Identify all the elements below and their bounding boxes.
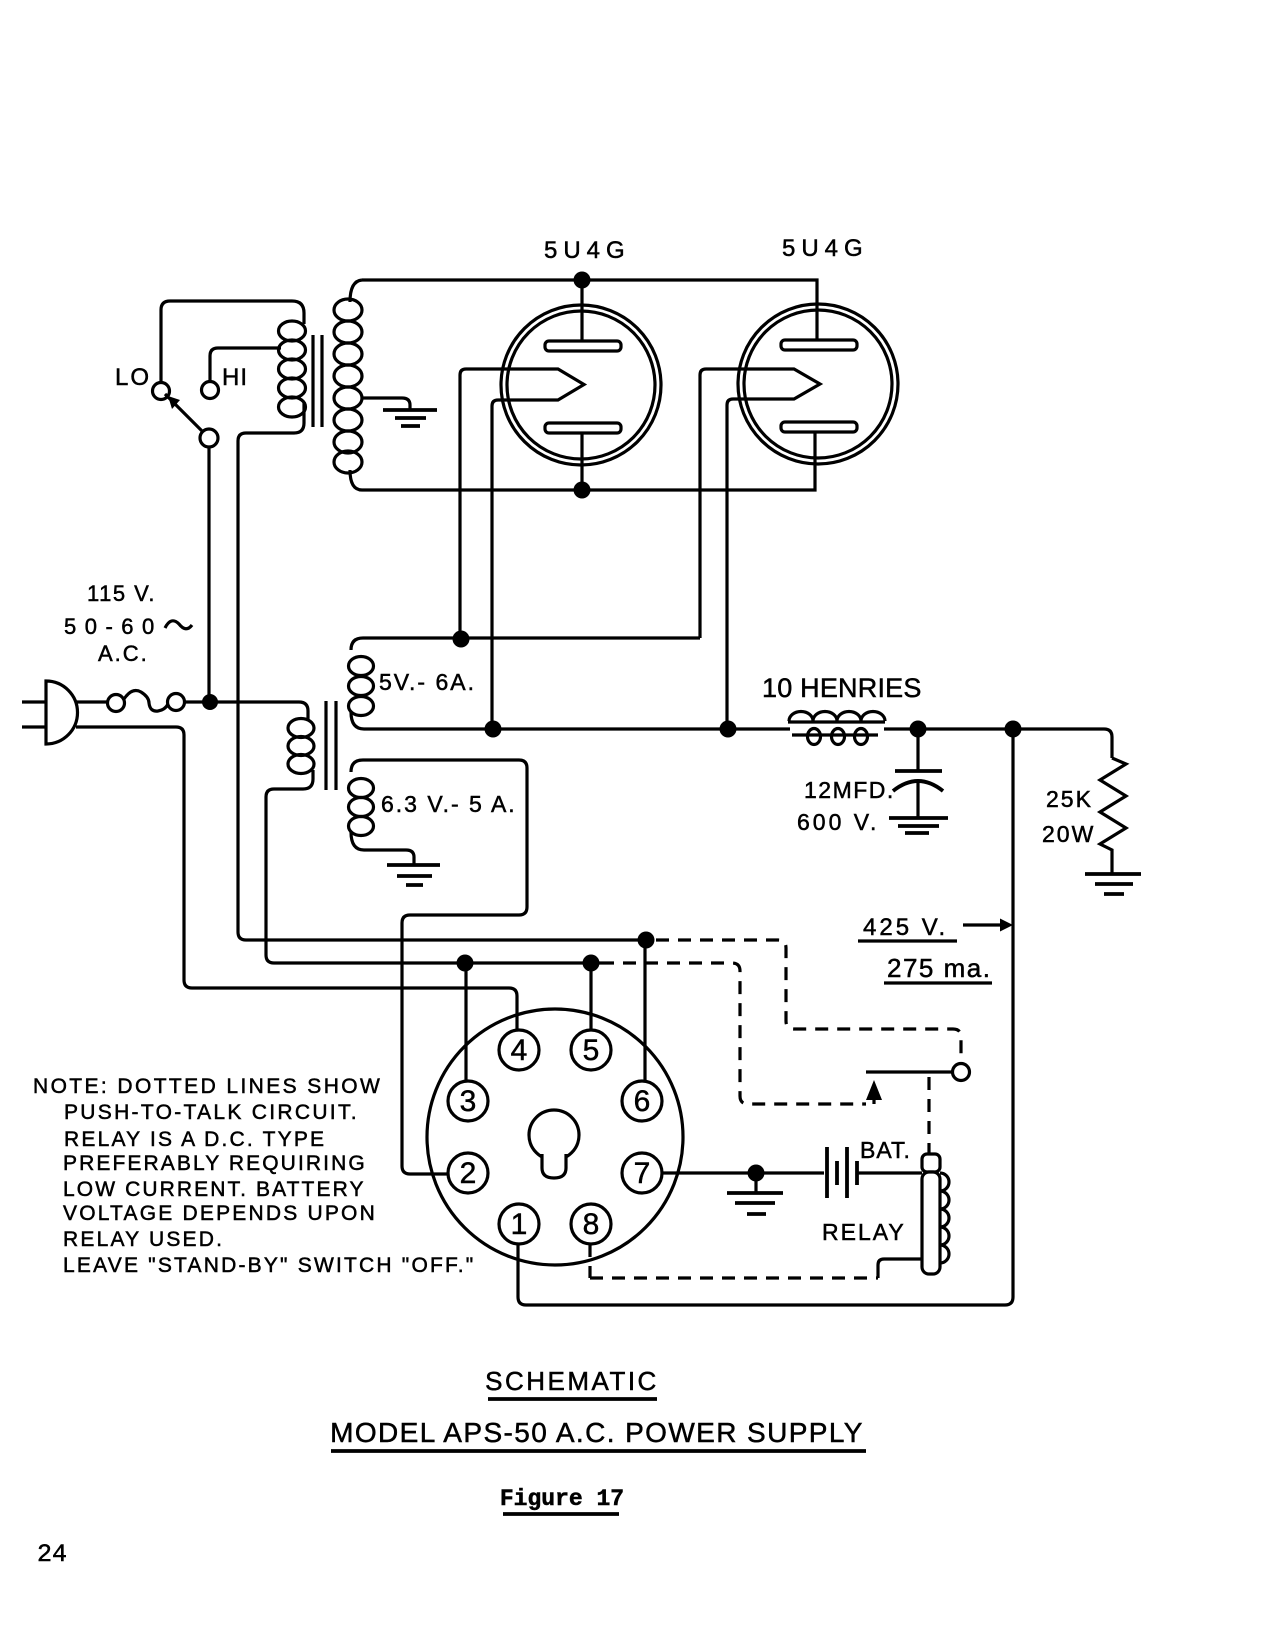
tube V2 bottom plate [781,422,857,432]
svg-text:20W: 20W [1042,821,1095,847]
label 12MFD. [804,777,895,803]
svg-text:6.3 V.- 5 A.: 6.3 V.- 5 A. [381,791,517,817]
svg-text:275 ma.: 275 ma. [887,953,991,983]
label 275 ma. with underline [887,953,991,983]
wire HV bottom line to both plates [362,433,815,490]
AC plug P1 [46,681,78,744]
svg-text:RELAY IS A D.C. TYPE: RELAY IS A D.C. TYPE [64,1128,326,1151]
svg-text:7: 7 [634,1157,651,1190]
switch S2 stand-by terminal [953,1064,970,1081]
title MODEL APS-50 A.C. POWER SUPPLY [330,1417,864,1448]
node PTT line2 / pin 3 junction [457,955,474,972]
svg-text:1: 1 [511,1208,528,1241]
node main line / capacitor junction [910,721,927,738]
svg-text:5: 5 [583,1034,600,1067]
ground (6.3V winding) [387,865,440,885]
socket pin 5 [571,1030,611,1070]
ground (resistor R1) [1085,874,1141,894]
node 5V top / V1 filament junction [453,631,470,648]
tube V2 5U4G envelope [738,304,898,464]
svg-text:10 HENRIES: 10 HENRIES [762,673,922,703]
switch S2 stand-by arm [866,1070,952,1073]
wire plug lower prong to pin 4 line [76,727,517,1031]
tube V1 plate lead top [580,280,583,341]
wire pin 5 up to PTT line 2 [589,963,592,1030]
ground (capacitor C1) [889,818,948,833]
svg-text:6: 6 [634,1085,651,1118]
wire choke to resistor corner [884,729,1112,758]
label 20W [1042,821,1095,847]
wire plug to fuse [76,700,108,703]
wire switch common down to AC line [207,447,210,702]
label 425 V. with underline [863,914,948,941]
label 6.3V.-5A. [381,791,517,817]
ground (pin 7 line) [727,1193,783,1214]
page number 24 [37,1540,67,1569]
svg-text:A.C.: A.C. [98,641,149,666]
label LO [115,364,151,391]
tube V1 bottom plate [545,423,621,433]
socket pin 7 [622,1153,662,1193]
ground (HV center tap) [383,410,437,426]
wire fuse to T2 primary top [184,702,308,720]
transformer T1 HV secondary winding [334,280,362,490]
tube V2 top plate [781,340,857,350]
wire T2 primary bottom down to PTT line (pins 3,5) [266,789,601,963]
label RELAY [822,1219,906,1245]
transformer T1 core [313,335,322,427]
arrow PTT wiper [866,1080,882,1100]
AC plug prong upper [22,700,45,703]
label HI [222,364,248,391]
wire ground drop (pin 7 line) [754,1173,757,1192]
wire LO terminal to T1 primary top [161,301,304,383]
AC sine squiggle [165,621,192,629]
label 600 V. [797,809,879,835]
label 115 V. 50-60 A.C. [64,581,163,666]
tube V1 bottom plate lead [580,433,583,490]
svg-text:HI: HI [222,364,248,391]
wire 6.3V top to socket pin 2 [363,760,527,1174]
svg-text:MODEL APS-50 A.C. POWER SUPPLY: MODEL APS-50 A.C. POWER SUPPLY [330,1417,864,1448]
fuse F1 [108,691,185,712]
svg-text:2: 2 [460,1157,477,1190]
label BAT. [860,1137,911,1163]
socket pin 3 [448,1081,488,1121]
svg-text:LEAVE "STAND-BY" SWITCH "OFF.": LEAVE "STAND-BY" SWITCH "OFF." [63,1254,475,1277]
svg-text:PUSH-TO-TALK CIRCUIT.: PUSH-TO-TALK CIRCUIT. [64,1101,359,1124]
svg-text:BAT.: BAT. [860,1137,911,1163]
capacitor C1 top plate [895,769,942,773]
svg-text:SCHEMATIC: SCHEMATIC [485,1366,659,1396]
wire pin 7 to battery [662,1171,824,1174]
wire PTT line 2 dashed (after pin-5 node) [601,963,866,1104]
tube V1 top plate [545,341,621,351]
socket pin 4 [499,1030,539,1070]
tube V1 5U4G envelope [501,305,661,465]
svg-text:VOLTAGE DEPENDS UPON: VOLTAGE DEPENDS UPON [63,1202,377,1225]
wire main B+ line (5V bottom) [364,727,790,730]
wire 6.3V bottom to ground [364,850,414,864]
svg-text:NOTE: DOTTED LINES SHOW: NOTE: DOTTED LINES SHOW [33,1075,382,1098]
wire pin 3 up to PTT line 2 [464,963,467,1081]
transformer T2 primary winding [288,719,314,790]
svg-text:24: 24 [37,1540,67,1569]
svg-text:600 V.: 600 V. [797,809,879,835]
note text block [33,1075,475,1277]
node main line / V1 filament junction [485,721,502,738]
svg-text:RELAY USED.: RELAY USED. [63,1228,224,1251]
label 10 HENRIES [762,673,922,703]
wire battery to relay [857,1171,922,1174]
tube V2 filament and leads [700,369,820,729]
wire 5V top line to tube filaments [363,636,700,639]
label 25K [1046,786,1093,812]
resistor R1 25K 20W [1100,758,1126,873]
transformer T2 5V winding [349,638,374,729]
switch S1 arm [165,394,203,432]
node AC line / switch common junction [202,694,218,710]
wire dashed relay contact to switch [927,1077,930,1154]
octal socket X1 outline [427,1009,683,1265]
socket pin 1 [499,1204,539,1244]
socket pin 8 [571,1204,611,1244]
arrow 425V pointing to B+ line [963,923,1000,926]
svg-text:5V.- 6A.: 5V.- 6A. [379,669,476,695]
AC plug prong lower [22,725,45,728]
wire relay bottom lead [878,1259,922,1278]
svg-text:3: 3 [460,1085,477,1118]
svg-text:50-60: 50-60 [64,614,163,639]
wire pin 6 up to PTT line 1 [643,940,646,1081]
node tube V1 plate-bottom junction [574,482,591,499]
label 5U4G (V1) [544,237,631,264]
svg-text:25K: 25K [1046,786,1093,812]
svg-text:4: 4 [511,1034,528,1067]
capacitor C1 lead [916,729,919,771]
svg-text:115 V.: 115 V. [87,581,156,606]
wire B+ vertical to socket pin 1 [518,729,1013,1305]
capacitor C1 curved plate [893,781,943,791]
socket pin 6 [622,1081,662,1121]
svg-text:5U4G: 5U4G [782,235,869,262]
svg-text:5U4G: 5U4G [544,237,631,264]
svg-text:8: 8 [583,1208,600,1241]
capacitor C1 lower lead [916,781,919,817]
switch S1 HI terminal [202,382,219,399]
svg-text:425 V.: 425 V. [863,914,948,941]
tube V1 filament and leads [460,369,584,729]
battery BAT. [827,1147,857,1198]
wire HV top line to both plates [362,280,817,340]
switch S1 LO terminal [153,383,170,400]
transformer T2 core [326,701,336,790]
node PTT line1 / pin 6 junction [638,932,655,949]
switch S1 arrowhead [168,396,180,409]
svg-text:12MFD.: 12MFD. [804,777,895,803]
wire HV center tap [362,398,410,409]
node pin7 line / ground junction [748,1165,765,1182]
choke L1 10 henries [788,712,885,745]
node PTT line2 / pin 5 junction [583,955,600,972]
node main line / V2 filament junction [720,721,737,738]
svg-text:RELAY: RELAY [822,1219,906,1245]
node main line / B+ takeoff junction [1005,721,1022,738]
relay K1 [922,1154,949,1274]
title SCHEMATIC [485,1366,659,1396]
socket pin 2 [448,1153,488,1193]
wire dashed pin 8 to relay [590,1276,878,1279]
svg-text:LOW CURRENT. BATTERY: LOW CURRENT. BATTERY [63,1178,366,1201]
wire T1 primary bottom down to PTT line (pin 6) [238,433,646,940]
svg-text:LO: LO [115,364,151,391]
caption Figure 17 [500,1486,624,1512]
label 5V.-6A. [379,669,476,695]
wire PTT line 1 dashed (after pin-6 node) [656,940,961,1062]
socket keyway [529,1110,579,1160]
wire dashed pin 8 drop [588,1244,591,1278]
transformer T2 6.3V winding [349,760,374,850]
switch S1 common terminal [200,429,218,447]
wire HI terminal to T1 primary tap [210,348,281,381]
node tube V1 plate-top junction [574,272,591,289]
transformer T1 primary winding [279,321,306,433]
label 5U4G (V2) [782,235,869,262]
svg-text:Figure 17: Figure 17 [500,1486,624,1512]
svg-text:PREFERABLY REQUIRING: PREFERABLY REQUIRING [63,1152,367,1175]
